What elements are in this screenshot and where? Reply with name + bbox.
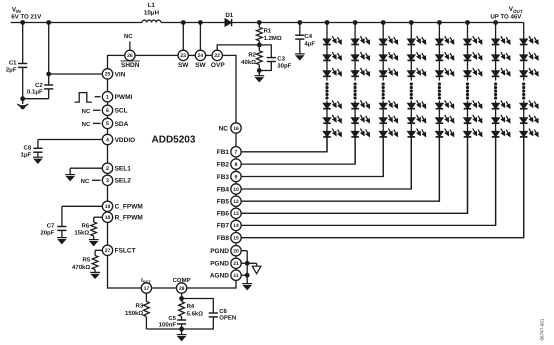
svg-text:D1: D1 xyxy=(225,12,233,19)
svg-text:1μF: 1μF xyxy=(21,151,32,158)
pin 23 SW on top edge xyxy=(178,50,188,60)
wire: FB8 feedback return from LED string 8 xyxy=(241,137,523,238)
svg-text:FSLCT: FSLCT xyxy=(115,248,136,255)
svg-text:NC: NC xyxy=(82,121,91,128)
wire: FB1 feedback return from LED string 1 xyxy=(241,137,327,152)
pin 22 OVP on top edge xyxy=(212,50,222,60)
LED D8f string 8 lower xyxy=(520,129,538,137)
LED D8a string 8 upper xyxy=(520,36,538,44)
svg-text:SHDN: SHDN xyxy=(121,62,140,69)
resistor R5 470kohm on FSLCT xyxy=(95,249,102,251)
pin FB4 on right edge xyxy=(231,184,241,194)
svg-text:5.6kΩ: 5.6kΩ xyxy=(187,311,204,318)
ground: compensation network ground xyxy=(181,329,183,335)
pin 1 PWMI on left edge xyxy=(102,92,112,102)
LED D1d string 1 lower xyxy=(323,100,341,108)
svg-text:15kΩ: 15kΩ xyxy=(74,230,89,237)
svg-text:R1: R1 xyxy=(264,27,272,34)
svg-text:0.1μF: 0.1μF xyxy=(27,89,43,96)
pin FB3 on right edge xyxy=(231,171,241,181)
svg-text:SEL1: SEL1 xyxy=(115,166,132,173)
wire: FB2 feedback return from LED string 2 xyxy=(241,137,355,164)
LED D7d string 7 lower xyxy=(492,100,510,108)
svg-text:9: 9 xyxy=(235,174,238,180)
svg-text:26: 26 xyxy=(127,53,133,59)
pin FB7 on right edge xyxy=(231,220,241,230)
pin 26 SHDN on top edge xyxy=(125,50,135,60)
svg-text:C6: C6 xyxy=(219,308,227,315)
LED D6c string 6 upper xyxy=(464,68,482,76)
LED D3b string 3 upper xyxy=(379,52,397,60)
wire: rail from L1 to diode D1 anode xyxy=(161,22,225,24)
svg-text:20pF: 20pF xyxy=(40,230,54,237)
ground: below C8 xyxy=(33,157,43,163)
svg-text:C3: C3 xyxy=(277,56,285,63)
LED D1b string 1 upper xyxy=(323,52,341,60)
ground: below C4 xyxy=(295,54,305,60)
LED D6a string 6 upper xyxy=(464,36,482,44)
svg-text:R_FPWM: R_FPWM xyxy=(115,215,143,222)
LED D7f string 7 lower xyxy=(492,129,510,137)
pin 24 SW on top edge xyxy=(195,50,205,60)
op-amp U1 ADD5203 IC boundary outline xyxy=(108,55,237,288)
pin 19 C_FPWM on left edge xyxy=(102,201,112,211)
svg-text:C8: C8 xyxy=(24,144,32,151)
svg-text:15: 15 xyxy=(233,236,239,242)
LED D5a string 5 upper xyxy=(436,36,454,44)
LED D3e string 3 lower xyxy=(379,115,397,123)
svg-text:FB2: FB2 xyxy=(217,161,230,168)
LED D6b string 6 upper xyxy=(464,52,482,60)
svg-text:30pF: 30pF xyxy=(277,63,291,70)
svg-text:R6: R6 xyxy=(82,223,90,230)
pin 17 ISET on bottom edge xyxy=(141,283,151,293)
wire: SEL1 pin tied to ground xyxy=(70,167,102,169)
svg-text:10μH: 10μH xyxy=(144,9,160,16)
svg-text:R4: R4 xyxy=(187,303,195,310)
pin FB6 on right edge xyxy=(231,208,241,218)
svg-text:UP TO 46V: UP TO 46V xyxy=(490,14,522,21)
wire: LED string 2 column with dotted continuation xyxy=(353,21,357,25)
wire: LED string 6 column with dotted continuation xyxy=(466,21,470,25)
svg-text:VIN: VIN xyxy=(115,71,126,78)
wire: VIN pin to C2 branch xyxy=(49,73,103,75)
svg-text:28: 28 xyxy=(179,286,185,292)
wire: PGND/AGND pins to ground bus xyxy=(241,250,247,252)
pin 4 VDDIO on left edge xyxy=(102,134,112,144)
svg-text:4: 4 xyxy=(106,137,109,143)
svg-text:40kΩ: 40kΩ xyxy=(241,59,256,66)
svg-text:PWMI: PWMI xyxy=(115,94,133,101)
wire: FB4 feedback return from LED string 4 xyxy=(241,137,411,189)
pin 6 SCL on left edge xyxy=(102,105,112,115)
svg-text:5: 5 xyxy=(106,121,109,127)
svg-text:SW: SW xyxy=(195,62,206,69)
svg-text:21: 21 xyxy=(233,261,239,267)
svg-text:4μF: 4μF xyxy=(304,40,315,47)
svg-text:L1: L1 xyxy=(148,2,156,9)
capacitor C8 1uF on VDDIO xyxy=(38,139,102,141)
wire: LED string 1 column with dotted continuation xyxy=(325,21,329,25)
wire: SW pin 24 to rail xyxy=(199,23,201,51)
svg-text:NC: NC xyxy=(219,125,229,132)
wire: LED string 7 column with dotted continuation xyxy=(494,21,498,25)
svg-text:19: 19 xyxy=(105,204,111,210)
LED D1c string 1 upper xyxy=(323,68,341,76)
svg-text:14: 14 xyxy=(233,223,239,229)
svg-text:SW: SW xyxy=(178,62,189,69)
LED D3f string 3 lower xyxy=(379,129,397,137)
diode D1 (boost rectifier) on rail xyxy=(225,19,231,26)
LED D2e string 2 lower xyxy=(351,115,369,123)
pin FB2 on right edge xyxy=(231,159,241,169)
svg-text:10: 10 xyxy=(233,187,239,193)
pin 28 COMP on bottom edge xyxy=(176,283,186,293)
capacitor C7 20pF on C_FPWM xyxy=(62,205,102,207)
svg-text:24: 24 xyxy=(198,53,204,59)
svg-text:ADD5203: ADD5203 xyxy=(152,134,196,145)
ground: below R6 xyxy=(89,240,99,246)
svg-text:SDA: SDA xyxy=(115,121,129,128)
wire: OVP pin to R1/R2 divider tap xyxy=(217,45,259,50)
pulse source symbol at PWMI input xyxy=(75,93,92,103)
LED D4a string 4 upper xyxy=(408,36,426,44)
svg-text:PGND: PGND xyxy=(210,261,229,268)
capacitor C4 4uF output cap xyxy=(298,21,302,25)
svg-text:100nF: 100nF xyxy=(159,322,177,329)
resistor R2 40kohm from tap to ground xyxy=(258,45,260,51)
LED D3a string 3 upper xyxy=(379,36,397,44)
ground: below R5 xyxy=(90,272,100,278)
LED D7c string 7 upper xyxy=(492,68,510,76)
svg-text:7: 7 xyxy=(235,150,238,156)
LED D8d string 8 lower xyxy=(520,100,538,108)
svg-text:FB6: FB6 xyxy=(217,211,230,218)
pin 18 R_FPWM on left edge xyxy=(102,212,112,222)
LED D6e string 6 lower xyxy=(464,115,482,123)
LED D1a string 1 upper xyxy=(323,36,341,44)
pin 25 VIN on left edge xyxy=(102,69,112,79)
wire: FB5 feedback return from LED string 5 xyxy=(241,137,439,201)
svg-text:NC: NC xyxy=(81,178,90,185)
svg-text:C1: C1 xyxy=(9,60,17,67)
svg-text:C5: C5 xyxy=(168,315,176,322)
LED D6f string 6 lower xyxy=(464,129,482,137)
svg-text:150kΩ: 150kΩ xyxy=(125,310,143,317)
inductor L1 10uH in series on rail xyxy=(142,20,161,22)
svg-text:NC: NC xyxy=(82,108,91,115)
resistor R4 5.6kohm from COMP xyxy=(181,293,183,298)
svg-text:AGND: AGND xyxy=(210,273,229,280)
svg-text:25: 25 xyxy=(105,72,111,78)
svg-text:PGND: PGND xyxy=(210,248,229,255)
svg-text:R2: R2 xyxy=(248,52,256,59)
pin 5 SDA on left edge xyxy=(102,118,112,128)
LED D7b string 7 upper xyxy=(492,52,510,60)
LED D4e string 4 lower xyxy=(408,115,426,123)
pin 21 PGND on right edge xyxy=(231,258,241,268)
pin 2 SEL1 on left edge xyxy=(102,163,112,173)
svg-text:1: 1 xyxy=(106,95,109,101)
LED D8c string 8 upper xyxy=(520,68,538,76)
wire: FB3 feedback return from LED string 3 xyxy=(241,137,383,177)
svg-text:FB4: FB4 xyxy=(217,186,230,193)
LED D1e string 1 lower xyxy=(323,115,341,123)
svg-text:16: 16 xyxy=(233,126,239,132)
LED D4c string 4 upper xyxy=(408,68,426,76)
svg-text:OVP: OVP xyxy=(211,62,225,69)
wire: LED string 8 column with dotted continuation xyxy=(523,23,525,81)
LED D1f string 1 lower xyxy=(323,129,341,137)
LED D5c string 5 upper xyxy=(436,68,454,76)
resistor R6 15kohm on R_FPWM xyxy=(94,216,103,218)
svg-text:23: 23 xyxy=(180,53,186,59)
pin 11 AGND on right edge xyxy=(231,270,241,280)
svg-text:VDDIO: VDDIO xyxy=(115,137,136,144)
svg-text:6V TO 21V: 6V TO 21V xyxy=(11,14,42,21)
LED D5f string 5 lower xyxy=(436,129,454,137)
wire: LED string 5 column with dotted continuation xyxy=(438,21,442,25)
capacitor C1 2uF input cap xyxy=(21,21,25,25)
pin 27 FSLCT on left edge xyxy=(102,245,112,255)
LED D2c string 2 upper xyxy=(351,68,369,76)
svg-text:06747-001: 06747-001 xyxy=(540,318,545,340)
wire: C2 bottom to C1 bottom junction xyxy=(23,98,49,100)
resistor R3 150kohm from ISET to ground xyxy=(145,293,147,301)
LED D8e string 8 lower xyxy=(520,115,538,123)
svg-text:18: 18 xyxy=(105,215,111,221)
LED D6d string 6 lower xyxy=(464,100,482,108)
svg-text:6: 6 xyxy=(106,108,109,114)
LED D7a string 7 upper xyxy=(492,36,510,44)
LED D3c string 3 upper xyxy=(379,68,397,76)
svg-text:2: 2 xyxy=(106,166,109,172)
LED D7e string 7 lower xyxy=(492,115,510,123)
LED D5e string 5 lower xyxy=(436,115,454,123)
LED D4d string 4 lower xyxy=(408,100,426,108)
svg-text:1.2MΩ: 1.2MΩ xyxy=(264,35,282,42)
pin FB5 on right edge xyxy=(231,196,241,206)
wire: SW pin 23 to rail xyxy=(182,23,184,51)
svg-text:27: 27 xyxy=(105,248,111,254)
pin FB8 on right edge xyxy=(231,233,241,243)
wire: SHDN pin pull-up stub to NC xyxy=(129,42,131,51)
LED D4b string 4 upper xyxy=(408,52,426,60)
svg-text:R5: R5 xyxy=(83,257,91,264)
ground: analog ground below bus xyxy=(242,284,252,290)
svg-text:FB7: FB7 xyxy=(217,223,230,230)
LED D2a string 2 upper xyxy=(351,36,369,44)
LED D2d string 2 lower xyxy=(351,100,369,108)
capacitor C6 OPEN parallel branch xyxy=(182,299,214,314)
wire: FB6 feedback return from LED string 6 xyxy=(241,137,467,213)
svg-text:12: 12 xyxy=(233,199,239,205)
svg-text:OPEN: OPEN xyxy=(219,315,236,322)
ground: open-arrow power ground symbol xyxy=(247,262,256,264)
LED D4f string 4 lower xyxy=(408,129,426,137)
capacitor C3 30pF parallel with R2 xyxy=(259,45,271,58)
wire: output rail from D1 to last LED column xyxy=(232,22,524,24)
pin 16 NC on right edge xyxy=(231,123,241,133)
wire: LED string 3 column with dotted continuation xyxy=(381,21,385,25)
svg-text:13: 13 xyxy=(233,211,239,217)
svg-text:SEL2: SEL2 xyxy=(115,178,132,185)
svg-text:FB8: FB8 xyxy=(217,235,230,242)
wire: FB7 feedback return from LED string 7 xyxy=(241,137,495,226)
svg-text:470kΩ: 470kΩ xyxy=(72,264,90,271)
LED D2f string 2 lower xyxy=(351,129,369,137)
node: OVP divider tap junction xyxy=(257,43,261,47)
LED D2b string 2 upper xyxy=(351,52,369,60)
svg-text:11: 11 xyxy=(233,273,239,279)
ground: at SEL1 xyxy=(65,175,75,181)
LED D8b string 8 upper xyxy=(520,52,538,60)
svg-text:C2: C2 xyxy=(35,82,43,89)
svg-text:22: 22 xyxy=(214,53,220,59)
svg-text:20: 20 xyxy=(233,249,239,255)
pin FB1 on right edge xyxy=(231,147,241,157)
ground: input caps ground arrow xyxy=(22,99,24,104)
pin 3 SEL2 on left edge xyxy=(102,175,112,185)
capacitor C5 100nF under R4 xyxy=(177,319,186,321)
svg-text:8: 8 xyxy=(235,162,238,168)
svg-text:C_FPWM: C_FPWM xyxy=(115,204,143,211)
LED D5b string 5 upper xyxy=(436,52,454,60)
svg-text:FB3: FB3 xyxy=(217,174,230,181)
capacitor C2 0.1uF input cap xyxy=(47,21,51,25)
LED D3d string 3 lower xyxy=(379,100,397,108)
svg-text:SCL: SCL xyxy=(115,108,128,115)
svg-text:17: 17 xyxy=(144,286,150,292)
wire: R3 bottom to compensation ground node xyxy=(146,328,181,330)
svg-text:C7: C7 xyxy=(47,223,55,230)
svg-text:FB5: FB5 xyxy=(217,199,230,206)
svg-text:2μF: 2μF xyxy=(6,67,17,74)
ground: below C7 xyxy=(57,238,67,244)
wire: top VIN rail from input to L1 xyxy=(11,22,142,24)
svg-text:C4: C4 xyxy=(304,33,312,40)
svg-text:R3: R3 xyxy=(136,302,144,309)
pin 20 PGND on right edge xyxy=(231,246,241,256)
svg-text:COMP: COMP xyxy=(173,277,191,284)
resistor R1 1.2Mohm from rail to OVP tap xyxy=(257,21,261,25)
svg-text:FB1: FB1 xyxy=(217,149,230,156)
svg-text:3: 3 xyxy=(106,178,109,184)
LED D5d string 5 lower xyxy=(436,100,454,108)
svg-text:NC: NC xyxy=(124,33,133,40)
wire: LED string 4 column with dotted continuation xyxy=(409,21,413,25)
ground: below R2 xyxy=(257,69,261,73)
